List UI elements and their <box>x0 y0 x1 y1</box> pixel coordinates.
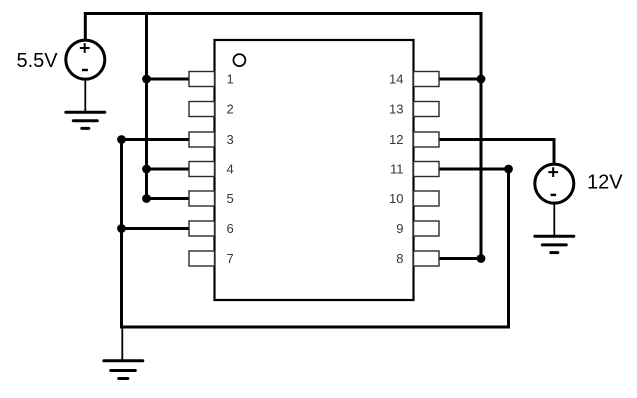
wire pin 6 <box>122 227 190 230</box>
svg-text:4: 4 <box>227 162 234 177</box>
svg-text:12V: 12V <box>587 171 623 193</box>
voltage source V1 5.5V <box>66 40 105 79</box>
pin 14 box <box>414 72 440 87</box>
wire bus A: top wire down to pin 5 <box>147 14 190 199</box>
wire pin 8 <box>439 257 482 260</box>
svg-text:10: 10 <box>389 191 403 206</box>
wire pin 3 to ground bus to pin 11 <box>122 140 509 328</box>
pin 12 box <box>414 132 440 147</box>
junction dot pin8 bus C <box>477 254 486 263</box>
junction dot pin5 bus A <box>142 194 151 203</box>
svg-text:7: 7 <box>227 251 234 266</box>
svg-text:2: 2 <box>227 102 234 117</box>
junction dot pin1 bus A <box>142 75 151 84</box>
junction dot pin3 bus B <box>117 135 126 144</box>
wire pin 4 <box>147 168 190 171</box>
wire top net: V1 plus to pin14/pin8 vertical bus <box>85 14 481 259</box>
pin 8 box <box>414 251 440 266</box>
junction dot pin14 bus C <box>477 75 486 84</box>
svg-text:6: 6 <box>227 221 234 236</box>
svg-text:9: 9 <box>396 221 403 236</box>
pin 5 box <box>189 191 215 206</box>
junction dot pin6 bus B <box>117 224 126 233</box>
svg-text:5.5V: 5.5V <box>17 50 59 72</box>
pin 3 box <box>189 132 215 147</box>
IC U1 body <box>215 40 414 300</box>
pin 10 box <box>414 191 440 206</box>
pin 1 box <box>189 72 215 87</box>
pin 7 box <box>189 251 215 266</box>
svg-text:13: 13 <box>389 102 403 117</box>
junction dot pin4 bus A <box>142 165 151 174</box>
svg-text:5: 5 <box>227 191 234 206</box>
wire pin 12 to V2 plus <box>439 140 555 164</box>
voltage source V2 12V <box>535 164 574 203</box>
svg-text:12: 12 <box>389 132 403 147</box>
wire pin 14 <box>439 78 482 81</box>
pin 4 box <box>189 162 215 177</box>
pin 9 box <box>414 221 440 236</box>
wire V1 minus to ground <box>84 80 86 112</box>
pin 2 box <box>189 102 215 117</box>
svg-text:14: 14 <box>389 72 403 87</box>
pin 13 box <box>414 102 440 117</box>
pin 11 box <box>414 162 440 177</box>
wire pin 1 <box>147 78 190 81</box>
ground G1 <box>66 112 105 128</box>
svg-text:1: 1 <box>227 72 234 87</box>
IC U1 orientation mark <box>233 54 245 66</box>
junction dot pin11 riser <box>504 165 513 174</box>
svg-text:8: 8 <box>396 251 403 266</box>
ground G3 <box>104 361 143 379</box>
ground G2 <box>535 236 574 252</box>
wire ground stem bottom <box>121 327 123 360</box>
svg-text:3: 3 <box>227 132 234 147</box>
svg-text:11: 11 <box>390 162 404 177</box>
pin 6 box <box>189 221 215 236</box>
wire V2 minus to ground <box>553 204 555 236</box>
